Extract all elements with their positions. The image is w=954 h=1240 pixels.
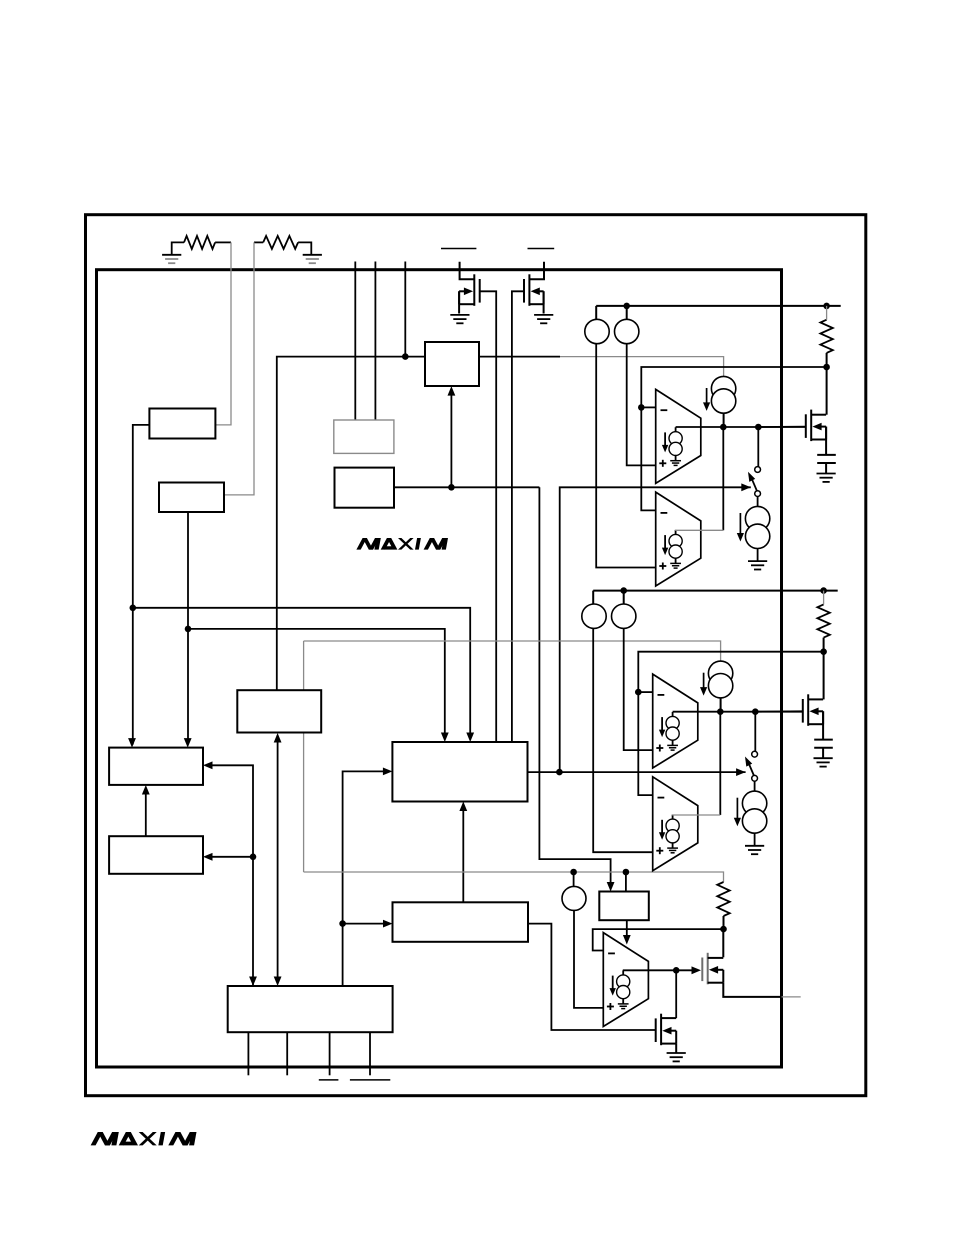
wire box I to box F <box>462 805 464 903</box>
resistor R1 <box>184 236 215 249</box>
arrow into box J top 1 <box>249 977 257 987</box>
transistor M5 source wire <box>723 983 781 997</box>
switch SW2 top contact <box>752 751 758 757</box>
ch1 node output b <box>755 424 762 431</box>
pin 4 label overline <box>350 1079 390 1081</box>
resistor R5 bottom stub <box>723 916 725 929</box>
transistor M2 source wire <box>822 711 824 739</box>
ch1 resistor bottom stub <box>826 353 828 367</box>
ch1 current source Ia <box>585 319 609 343</box>
ch1 current source Ia stub <box>595 306 597 319</box>
ch1 op-amp B output riser <box>722 427 724 530</box>
arrow to switch SW2 <box>736 768 746 776</box>
transistor M1 channel line <box>810 410 812 442</box>
gray net corner vertical upper <box>303 641 305 690</box>
transistor M1 source arrow <box>812 423 821 431</box>
box G (logic block) <box>109 748 203 785</box>
transistor Q2 gate line <box>523 279 525 303</box>
op-amp C (LDO error amp) internal ground <box>618 1003 629 1005</box>
pin stub node FB? <box>374 262 376 421</box>
wire box F zero-cross out <box>528 771 746 773</box>
ch1 Ib out wire <box>627 344 656 466</box>
ch2 capacitor ground <box>814 757 833 759</box>
transistor Q2 channel line <box>528 274 530 306</box>
ch1 node minus input <box>638 404 645 411</box>
op-amp ch1 B internal current arrow <box>664 535 666 551</box>
ch2 switch feed wire <box>754 712 756 752</box>
ch1 node top rail right <box>823 303 830 310</box>
ch1 node resistor bottom <box>823 364 830 371</box>
ch2 Ia out wire <box>593 628 653 852</box>
ch1 switch to Id stub <box>757 497 759 507</box>
arrow into box J top 2 <box>274 977 282 987</box>
node box K branch <box>250 854 257 861</box>
transistor Q1 gate wire <box>480 291 496 742</box>
transistor M6 source join <box>675 1031 677 1044</box>
transistor M2 source join <box>822 711 824 724</box>
wire R5 to op-amp C minus <box>593 929 724 950</box>
ch2 output wire <box>673 711 803 713</box>
ch2 resistor bottom stub <box>823 638 825 652</box>
ch1 capacitor ground stub <box>825 463 827 474</box>
ch1 top rail wire <box>596 305 841 307</box>
transistor Q1 drain pin <box>460 262 475 280</box>
ch1 wire minus to op-amp A <box>641 406 655 408</box>
box I (PWM logic aux) <box>393 902 529 942</box>
I5 out wire <box>574 910 603 1008</box>
box E (trim block) <box>237 690 321 732</box>
op-amp C (LDO error amp) plus label <box>607 1006 614 1008</box>
box D (oscillator?) <box>335 468 395 508</box>
op-amp ch2 B internal current source stub <box>672 815 674 820</box>
op-amp ch1 A minus label <box>661 409 668 411</box>
op-amp C (LDO error amp) internal current source <box>617 975 630 988</box>
arrow to switch SW1 <box>741 483 751 491</box>
ch2 capacitor C2 <box>814 739 833 741</box>
op-amp ch1 B internal current source <box>669 534 682 547</box>
transistor Q1 source mid stub <box>459 290 465 292</box>
wire box D out to box1 <box>450 389 452 487</box>
switch SW1 lever <box>752 480 757 491</box>
transistor M5 source arrow <box>709 966 718 974</box>
box B bottom pin <box>187 512 189 629</box>
op-amp ch2 B minus label <box>658 797 665 799</box>
switch SW2 bottom contact <box>752 775 758 781</box>
box H (offset block) <box>599 892 649 921</box>
box B (bias block) <box>159 483 224 513</box>
wire gray to box H <box>625 872 627 892</box>
op-amp ch1 B body <box>656 492 701 586</box>
transistor Q1 source arrow <box>464 288 473 296</box>
bus box E - box J <box>277 735 279 984</box>
transistor M6 source mid stub <box>671 1030 677 1032</box>
op-amp ch1 B minus label <box>661 512 668 514</box>
arrow into box1 bottom <box>448 386 456 396</box>
wire box I right out <box>528 924 656 1030</box>
transistor M1 source mid stub <box>821 426 826 428</box>
pin stub node ILIM? <box>354 262 356 421</box>
ch2 resistor Rtop <box>817 604 829 637</box>
ch1 current source Ib <box>615 319 639 343</box>
wire to box G right <box>206 765 253 986</box>
ch2 wire minus to op-amp B <box>638 692 652 795</box>
node box J out <box>339 920 346 927</box>
pin stub node REF <box>404 262 406 357</box>
op-amp ch2 B internal ground <box>667 847 678 849</box>
transistor Q2 gate wire <box>512 291 524 742</box>
transistor Q1 source to ground <box>458 291 460 313</box>
node zero-cross <box>556 769 563 776</box>
transistor Q1 gate line <box>479 279 481 303</box>
transistor M5 source pin (gray) <box>782 996 801 998</box>
op-amp C (LDO error amp) internal current arrow <box>612 976 614 992</box>
wire gray to current source I5 <box>573 872 575 887</box>
transistor M1 source wire <box>825 427 827 455</box>
box J pin 2 <box>286 1032 288 1075</box>
ch1 output wire <box>676 426 806 428</box>
arrow into box G bottom <box>142 785 150 795</box>
ch2 comparator threshold wire <box>638 652 823 692</box>
pin label overline left <box>441 248 476 250</box>
ch2 switch to Id stub <box>754 781 756 791</box>
ch1 wire minus to op-amp B <box>641 407 655 510</box>
switch SW1 top contact <box>755 467 761 473</box>
transistor M5 channel line <box>707 953 709 985</box>
gray net bottom run <box>304 872 724 882</box>
ch2 node output a <box>717 708 724 715</box>
op-amp ch1 B internal ground <box>670 562 681 564</box>
resistor R2 right wire <box>298 242 311 254</box>
transistor Q2 drain pin <box>529 262 544 280</box>
ch1 Ia out wire <box>596 344 656 568</box>
pin 3 label overline <box>319 1079 339 1081</box>
switch SW1 bottom contact <box>755 491 761 497</box>
wire box1 REF out <box>479 356 560 358</box>
transistor M1 gate line <box>805 414 807 438</box>
transistor M6 source arrow <box>662 1027 671 1035</box>
ch2 capacitor ground stub <box>822 748 824 759</box>
ch2 current source Ia stub <box>592 591 594 604</box>
box A (reference block) <box>149 409 215 439</box>
box J pin 3 <box>329 1032 331 1075</box>
transistor M1 source join <box>825 427 827 440</box>
box 1 (reference buffer) <box>425 342 479 386</box>
op-amp ch2 A plus label <box>656 747 663 749</box>
ch1 node top rail <box>623 303 630 310</box>
box F (PWM logic ch2) <box>392 742 527 802</box>
transistor Q2 source stub <box>529 303 543 305</box>
ch2 Id ground stub <box>754 833 756 846</box>
wire R2 to box B <box>224 242 254 495</box>
transistor M5 gate line <box>701 958 703 982</box>
wire REF to channel1 source (gray) <box>560 357 724 377</box>
op-amp ch2 A internal current source stub <box>672 712 674 717</box>
wire box E to box 1 <box>277 357 425 690</box>
transistor M6 drain stub <box>661 1017 676 1019</box>
wire R5 to M5 drain <box>722 929 724 957</box>
op-amp ch2 A internal current source <box>666 716 679 729</box>
wire box K to box G <box>145 788 147 836</box>
transistor M5 source stub <box>708 982 724 984</box>
op-amp ch1 A internal current source <box>669 432 682 445</box>
op-amp ch1 A body <box>656 389 701 483</box>
node left rail 1 <box>130 605 137 612</box>
op-amp ch2 B internal ground stub <box>672 842 674 848</box>
resistor R1 right wire <box>215 241 231 243</box>
wire zero-cross up to ch1 <box>560 487 751 772</box>
arrow into box K right <box>203 853 213 861</box>
wire rail1 down to box G <box>132 608 134 745</box>
node box D output <box>448 484 455 491</box>
current source I5 <box>562 886 586 910</box>
transistor Q2 source join <box>543 291 545 304</box>
transistor Q2 source arrow <box>531 288 540 296</box>
arrow into box I left <box>383 920 393 928</box>
gray net ch2 feed <box>304 641 721 661</box>
op-amp C (LDO error amp) internal current source stub <box>622 970 624 975</box>
ch2 node minus input <box>635 689 642 696</box>
ch1 Ic bottom stub <box>723 413 725 427</box>
ch2 op-amp B output wire <box>672 814 720 816</box>
MAXIM logo (footer) <box>91 1132 197 1145</box>
transistor M2 channel line <box>807 694 809 726</box>
ch2 Id ground <box>745 845 764 847</box>
op-amp C (LDO error amp) minus label <box>608 952 615 954</box>
ch1 Id arrow <box>739 513 741 535</box>
ch2 current source Ib <box>612 604 636 628</box>
op-amp ch2 B internal current source <box>666 819 679 832</box>
ch1 node output a <box>720 424 727 431</box>
ch2 node top rail right <box>820 587 827 594</box>
box J (serial interface) <box>228 986 393 1032</box>
op-amp ch2 A internal current arrow <box>661 717 663 733</box>
ch2 current source Id <box>742 791 766 815</box>
transistor M1 drain wire <box>826 367 828 415</box>
transistor M2 gate line <box>802 699 804 723</box>
wire box D out down to box H <box>539 487 610 888</box>
transistor M6 ground <box>667 1052 686 1054</box>
switch SW2 lever <box>749 765 754 776</box>
gray net vertical lower <box>303 733 305 873</box>
ch1 op-amp B output wire <box>675 529 723 531</box>
ch1 comparator threshold wire <box>641 367 826 407</box>
ch1 switch feed wire <box>757 427 759 467</box>
ch1 Ic arrow <box>706 388 708 406</box>
wire to box K right <box>206 856 253 858</box>
ch2 Ib out wire <box>624 628 653 750</box>
ch2 current source Ib stub <box>623 591 625 604</box>
transistor M2 source arrow <box>809 708 818 716</box>
ch1 Id ground <box>748 560 767 562</box>
ch2 Ic arrow <box>703 673 705 691</box>
op-amp ch1 A internal current source stub <box>675 427 677 432</box>
resistor R2 <box>263 236 298 249</box>
op-amp ch1 B internal ground stub <box>675 558 677 564</box>
op-amp ch2 A minus label <box>658 694 665 696</box>
transistor M6 source stub <box>661 1043 676 1045</box>
arrow box H into op-amp C <box>623 935 631 945</box>
transistor M2 drain wire <box>823 652 825 700</box>
transistor M2 source mid stub <box>818 710 823 712</box>
transistor M5 drain stub <box>708 957 724 959</box>
arrow into box F top left <box>466 733 474 743</box>
transistor M5 source mid stub <box>717 969 723 971</box>
IC inner border <box>97 270 782 1067</box>
ch2 op-amp B output riser <box>719 712 721 815</box>
transistor M6 channel line <box>660 1014 662 1045</box>
wire box J to box F left <box>343 771 389 986</box>
op-amp ch1 B plus label <box>659 565 666 567</box>
ch2 wire minus to op-amp A <box>638 691 652 693</box>
op-amp ch1 A internal ground <box>670 460 681 462</box>
transistor M5 source join <box>722 970 724 983</box>
op-amp ch2 A internal ground <box>667 744 678 746</box>
transistor M2 source stub <box>808 723 823 725</box>
transistor Q1 source stub <box>459 303 474 305</box>
ch1 gate wire <box>758 426 806 428</box>
ch2 node top rail <box>620 587 627 594</box>
ch2 node output b <box>752 708 759 715</box>
wire box D output <box>394 486 539 488</box>
ch2 node resistor bottom <box>820 648 827 655</box>
transistor Q1 channel line <box>473 274 475 306</box>
wire rail2 to box F <box>188 629 445 739</box>
op-amp ch2 A internal ground stub <box>672 740 674 746</box>
ch1 resistor Rtop <box>820 320 832 353</box>
arrow into box H top <box>607 882 615 892</box>
wire rail1 to box F <box>133 608 470 739</box>
transistor M1 drain stub <box>811 414 826 416</box>
arrow into box F left <box>383 768 393 776</box>
transistor Q2 ground <box>534 314 553 316</box>
ch2 resistor top stub <box>823 591 825 605</box>
box K (logic block 2) <box>109 836 203 874</box>
node op-amp C output <box>673 967 680 974</box>
transistor M6 source wire <box>675 1044 677 1053</box>
ch1 capacitor ground <box>817 473 836 475</box>
node left rail 2 <box>185 626 192 633</box>
ch1 Id ground stub <box>757 549 759 562</box>
op-amp ch2 B body <box>653 777 698 871</box>
ch2 Ic bottom stub <box>720 698 722 712</box>
arrow into M5 gate <box>692 966 702 974</box>
wire box H to op-amp C <box>626 920 628 940</box>
transistor M6 gate line <box>655 1018 657 1042</box>
wire R1 to box A <box>215 242 231 425</box>
op-amp ch1 B internal current source stub <box>675 530 677 535</box>
transistor Q1 source join <box>458 291 460 304</box>
outer border frame <box>86 215 866 1096</box>
transistor Q1 ground <box>450 314 469 316</box>
ch1 capacitor C1 <box>817 454 836 456</box>
transistor Q2 source to ground <box>543 291 545 313</box>
resistor R5 <box>717 882 729 916</box>
op-amp ch2 B plus label <box>656 850 663 852</box>
arrow into box G right <box>203 761 213 769</box>
arrow into box E bottom <box>274 733 282 743</box>
box J pin 4 <box>369 1032 371 1075</box>
wire box J out to box I <box>343 923 389 925</box>
box J pin 1 <box>247 1032 249 1075</box>
wire rail2 down to box G <box>187 629 189 745</box>
resistor R2 left wire <box>254 241 263 243</box>
arrow into box F top right <box>441 733 449 743</box>
node R5 bottom <box>720 926 727 933</box>
MAXIM logo (die marking) <box>356 538 448 550</box>
ch1 current source Ib stub <box>626 306 628 319</box>
arrow into box G top right <box>184 738 192 748</box>
op-amp ch1 A internal ground stub <box>675 455 677 461</box>
op-amp C (LDO error amp) internal ground stub <box>622 998 624 1004</box>
ch2 current source Ic <box>708 661 732 685</box>
ch2 current source Ia <box>582 604 606 628</box>
node REF junction <box>402 353 409 360</box>
node gray to box H <box>623 869 630 876</box>
node gray to circle <box>570 869 577 876</box>
resistor R1 ground <box>162 254 181 256</box>
wire box A to left rail <box>133 425 150 608</box>
ch2 top rail wire <box>593 590 838 592</box>
op-amp ch2 B internal current arrow <box>661 820 663 836</box>
resistor R2 ground <box>303 254 322 256</box>
transistor M2 drain stub <box>808 698 823 700</box>
transistor Q2 source mid stub <box>539 290 544 292</box>
ch2 Id arrow <box>736 798 738 820</box>
arrow into box F bottom <box>459 802 467 812</box>
op-amp C (LDO error amp) body <box>603 933 648 1027</box>
resistor R1 ground stub <box>172 242 184 254</box>
transistor M1 source stub <box>811 439 826 441</box>
op-amp ch1 A plus label <box>659 462 666 464</box>
arrow into box G top left <box>128 738 136 748</box>
op-amp C output wire <box>623 969 698 971</box>
ch1 current source Id <box>745 506 769 530</box>
ch1 resistor top stub <box>826 306 828 320</box>
op-amp ch1 A internal current arrow <box>664 432 666 448</box>
wire output to M6 drain <box>675 970 677 1018</box>
ch2 gate wire <box>755 710 803 712</box>
pin label overline right <box>528 248 555 250</box>
op-amp ch2 A body <box>653 674 698 768</box>
ch1 current source Ic <box>711 376 735 400</box>
box C (gray block) <box>334 420 394 453</box>
